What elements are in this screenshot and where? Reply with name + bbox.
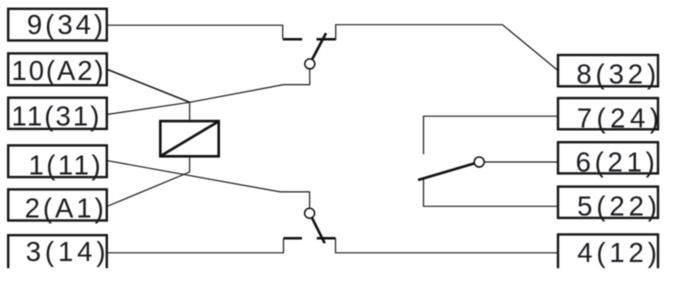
svg-text:10(A2): 10(A2) xyxy=(12,55,106,86)
svg-text:6(21): 6(21) xyxy=(576,147,659,178)
svg-text:7(24): 7(24) xyxy=(577,103,664,134)
svg-text:8(32): 8(32) xyxy=(576,59,660,90)
svg-text:4(12): 4(12) xyxy=(577,237,660,268)
svg-text:1(11): 1(11) xyxy=(28,150,103,181)
svg-text:3(14): 3(14) xyxy=(26,236,110,267)
svg-text:5(22): 5(22) xyxy=(577,191,661,222)
svg-text:2(A1): 2(A1) xyxy=(25,193,107,224)
svg-text:11(31): 11(31) xyxy=(11,101,101,132)
svg-text:9(34): 9(34) xyxy=(27,9,106,40)
